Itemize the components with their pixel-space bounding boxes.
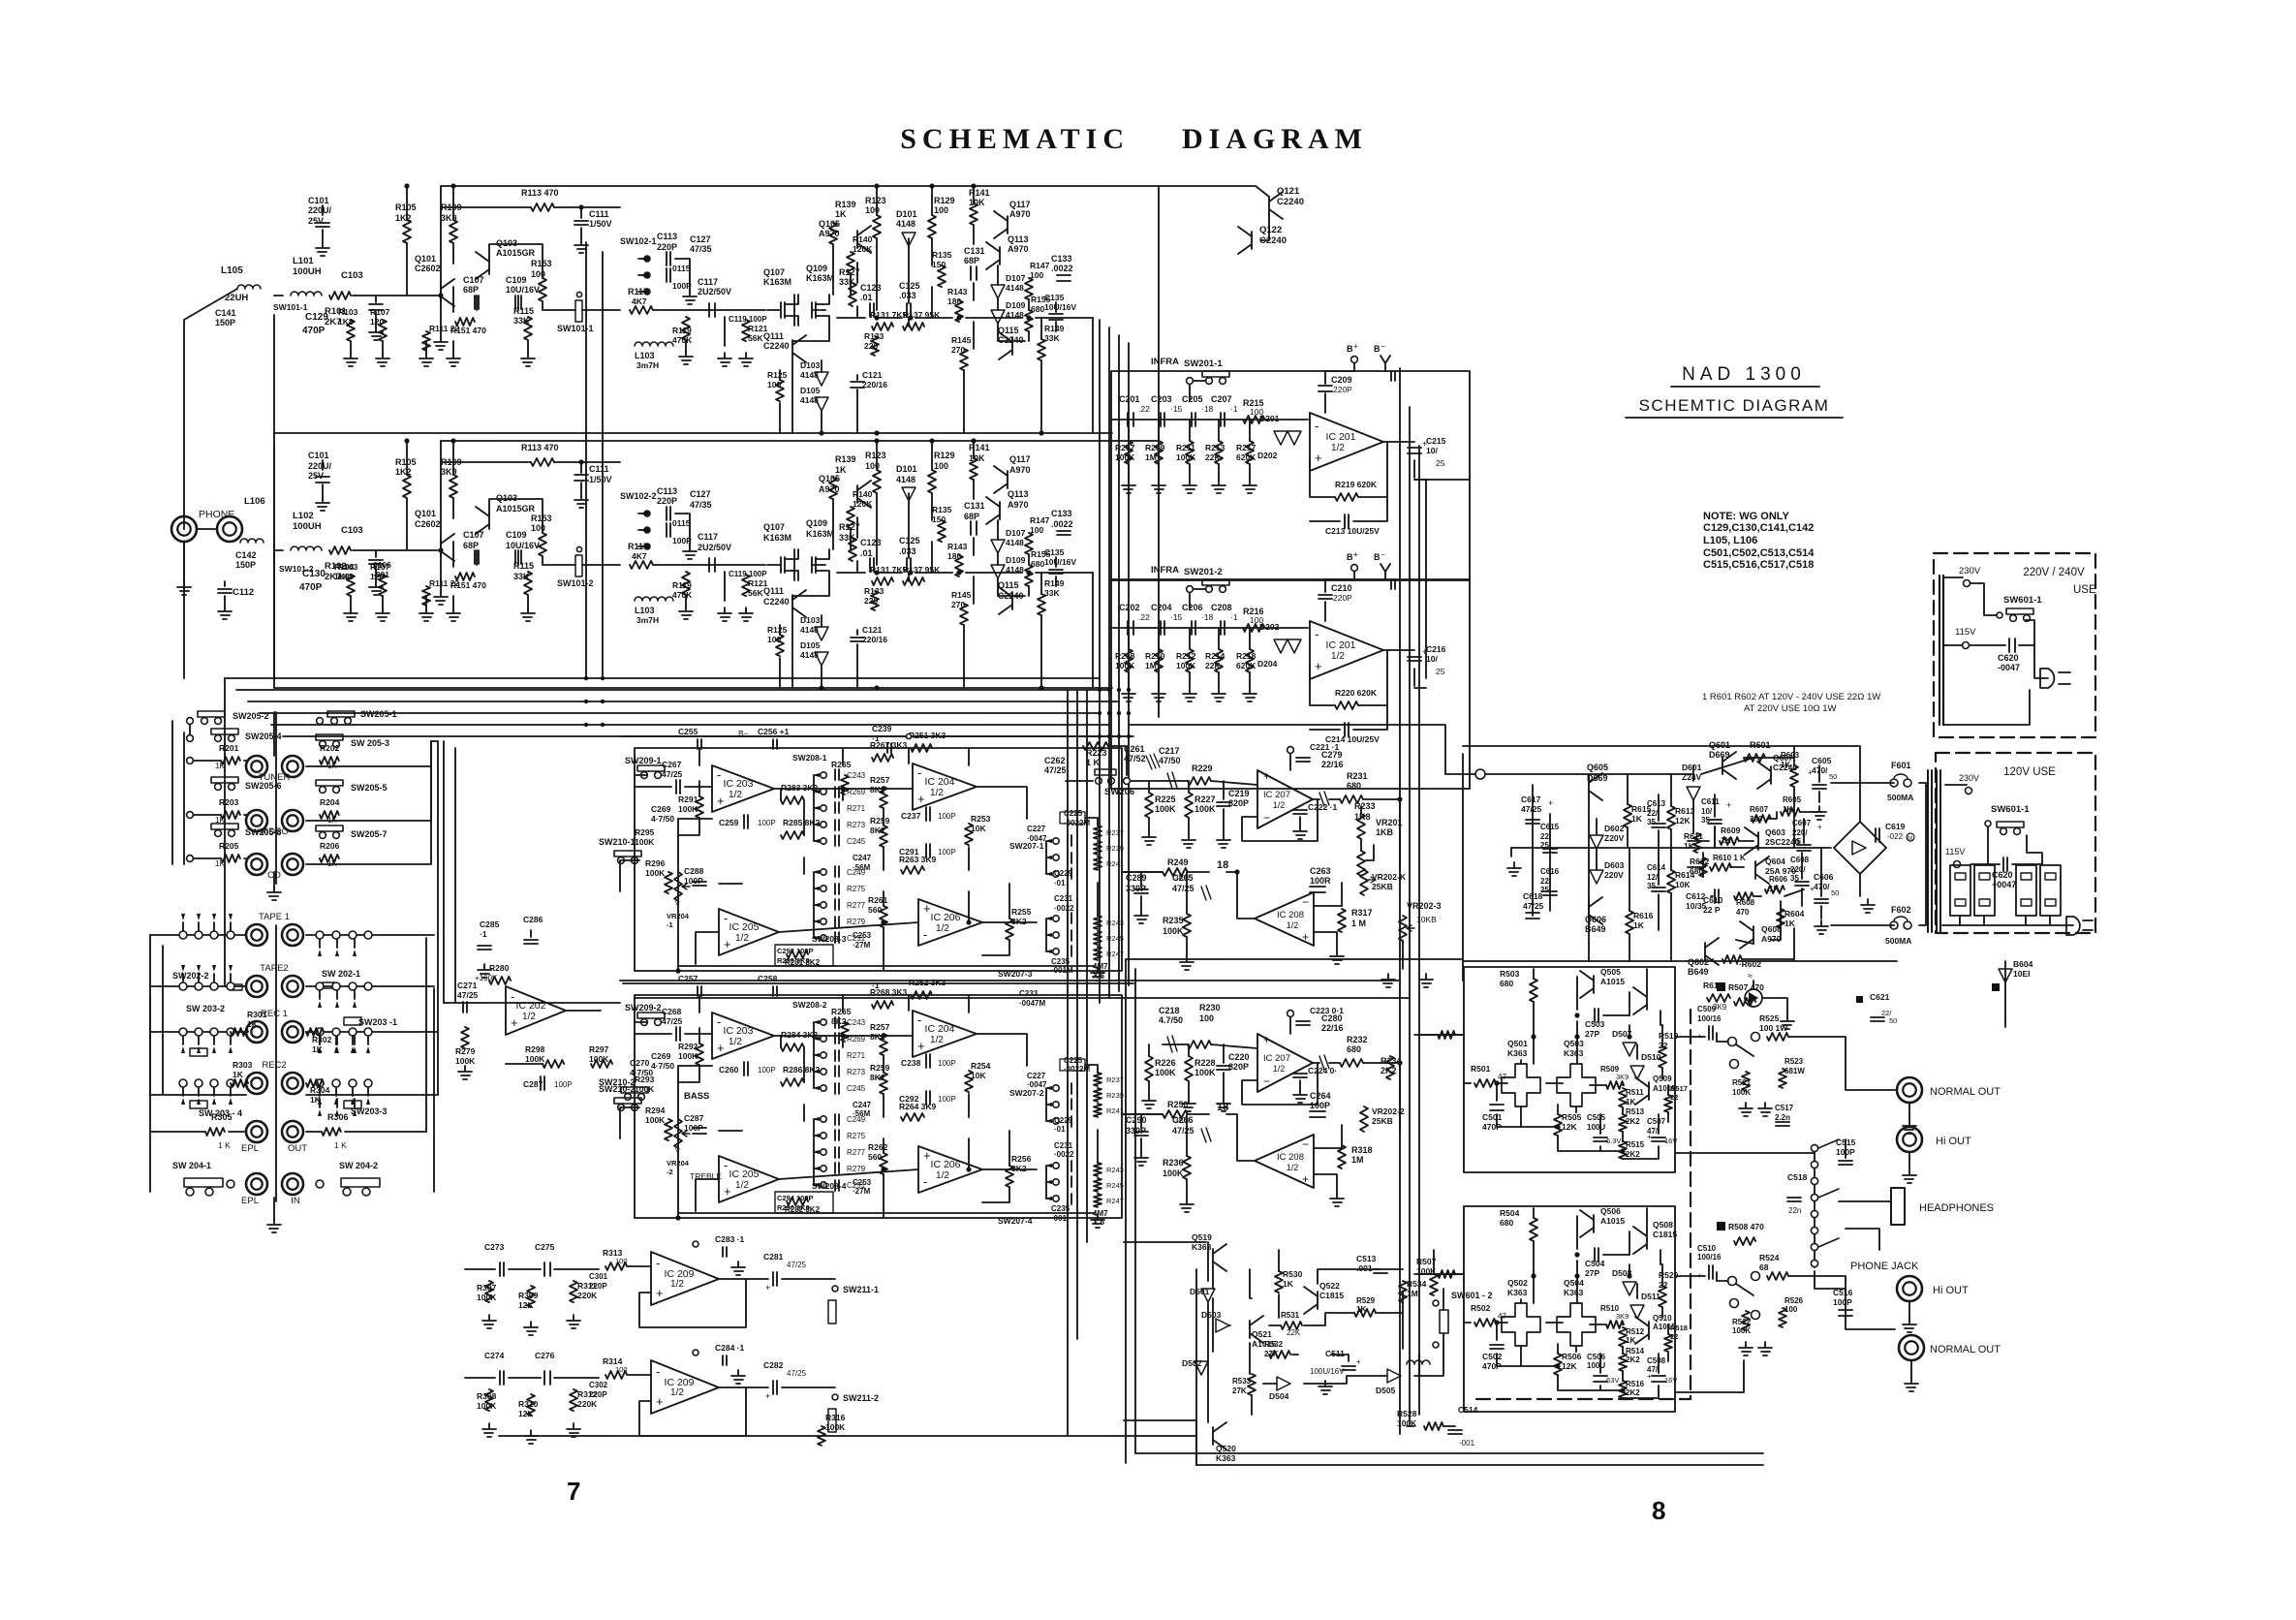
svg-text:68P: 68P [463,285,479,295]
svg-text:12K: 12K [1562,1361,1577,1371]
svg-text:R135: R135 [932,250,952,260]
svg-text:R529: R529 [1356,1296,1376,1305]
svg-text:C247: C247 [853,854,872,862]
svg-text:10K: 10K [971,1071,986,1080]
svg-text:270: 270 [951,345,965,355]
svg-text:+: + [1263,769,1270,783]
svg-text:R123: R123 [865,196,886,205]
svg-text:180: 180 [947,296,961,306]
svg-text:R279: R279 [847,918,866,926]
svg-text:+: + [923,901,931,916]
svg-text:R290 3K9: R290 3K9 [777,1203,810,1212]
svg-text:18: 18 [1217,859,1228,871]
svg-text:100U/16V: 100U/16V [1310,1367,1345,1376]
svg-text:C269: C269 [651,804,671,814]
svg-text:IC 206: IC 206 [931,1159,961,1170]
svg-text:−: − [1263,811,1270,825]
svg-text:R147: R147 [1030,515,1050,525]
svg-text:16V: 16V [1664,1376,1677,1385]
svg-text:K363: K363 [1216,1453,1236,1463]
svg-text:R318: R318 [1351,1145,1373,1155]
svg-text:25V: 25V [308,216,324,226]
svg-text:C502: C502 [1482,1352,1503,1361]
svg-text:100K: 100K [1155,804,1176,814]
svg-text:B: B [1347,344,1353,354]
svg-text:C294 100P: C294 100P [777,1194,814,1202]
svg-text:R305: R305 [211,1112,233,1122]
svg-text:IC 205: IC 205 [729,921,760,933]
svg-text:IC 207: IC 207 [1263,790,1290,800]
svg-text:≈: ≈ [1748,971,1753,981]
svg-text:D103: D103 [800,615,821,625]
svg-text:D103: D103 [800,360,821,370]
svg-text:SW 204-1: SW 204-1 [172,1161,211,1170]
svg-text:IN: IN [291,1196,300,1206]
svg-text:1/2: 1/2 [930,1035,944,1045]
svg-text:C619: C619 [1885,822,1906,831]
svg-text:C284 ·1: C284 ·1 [715,1343,745,1353]
svg-text:R523: R523 [1784,1057,1804,1066]
svg-text:50: 50 [1889,1016,1897,1025]
svg-text:R603: R603 [1781,751,1800,760]
svg-text:100K: 100K [1155,1068,1176,1077]
svg-text:470/: 470/ [1814,882,1830,891]
svg-text:C235: C235 [1051,957,1070,966]
svg-text:C504: C504 [1585,1259,1605,1268]
svg-text:B649: B649 [1688,967,1709,977]
svg-text:SW202-2: SW202-2 [172,971,209,981]
svg-text:22/: 22/ [1647,809,1659,818]
svg-text:L102: L102 [293,511,314,521]
svg-text:SW 205-3: SW 205-3 [351,738,389,748]
svg-text:C127: C127 [690,489,711,499]
svg-text:16V: 16V [1664,1137,1677,1145]
svg-text:100P: 100P [758,1066,776,1075]
svg-text:C510: C510 [1697,1244,1717,1253]
svg-text:4148: 4148 [800,625,819,635]
svg-text:10/: 10/ [1426,446,1438,455]
svg-text:2U2/50V: 2U2/50V [698,543,731,552]
svg-text:R220 620K: R220 620K [1335,688,1378,698]
svg-text:R309: R309 [518,1291,539,1300]
svg-text:C616: C616 [1540,867,1560,876]
svg-text:M: M [1908,836,1912,842]
svg-text:SW208-4: SW208-4 [812,1181,847,1191]
svg-text:C274: C274 [484,1351,505,1360]
svg-text:100: 100 [615,1257,628,1265]
svg-text:C135: C135 [1044,547,1065,557]
svg-text:4K7: 4K7 [632,551,647,561]
svg-text:680: 680 [1347,781,1361,791]
svg-text:150P: 150P [235,560,256,570]
svg-text:R534: R534 [1407,1279,1427,1289]
svg-text:680: 680 [1031,559,1044,569]
svg-text:Q111: Q111 [763,586,784,596]
svg-text:VR204: VR204 [667,912,690,920]
svg-text:C293 100P: C293 100P [777,947,814,955]
svg-text:47/25: 47/25 [662,769,683,779]
svg-text:220P: 220P [657,242,677,252]
svg-text:Q606: Q606 [1585,915,1606,924]
svg-text:1M: 1M [1145,452,1157,462]
svg-text:NAD 1300: NAD 1300 [1682,364,1806,385]
svg-text:220P: 220P [589,1282,607,1291]
svg-text:R236: R236 [1163,1158,1184,1168]
svg-text:R613: R613 [1675,806,1695,816]
svg-text:4·7/50: 4·7/50 [651,1061,674,1071]
svg-text:C514: C514 [1458,1405,1478,1415]
svg-text:C216: C216 [1426,644,1446,654]
svg-text:D601: D601 [1682,763,1702,772]
svg-text:R609: R609 [1721,826,1741,835]
svg-text:1/2: 1/2 [930,788,944,798]
svg-text:.033: .033 [899,291,916,300]
svg-text:+: + [511,1015,518,1030]
svg-text:-001: -001 [1459,1439,1475,1448]
svg-text:390: 390 [1750,815,1763,824]
svg-text:R213: R213 [1205,443,1226,452]
svg-text:IC 201: IC 201 [1326,639,1356,651]
svg-text:10K: 10K [1675,880,1691,889]
svg-text:18: 18 [1217,1102,1228,1113]
svg-text:C101: C101 [308,196,329,205]
svg-text:·1: ·1 [1230,612,1238,622]
svg-text:R524: R524 [1759,1253,1780,1262]
svg-text:4148: 4148 [896,219,915,229]
svg-text:+: + [765,1391,770,1401]
svg-text:SW207-2: SW207-2 [1009,1088,1044,1098]
svg-text:IC 204: IC 204 [925,1023,955,1035]
svg-text:R141: R141 [969,443,990,452]
svg-text:SW102-1: SW102-1 [620,236,657,246]
svg-text:R601: R601 [1750,740,1771,750]
svg-text:R531: R531 [1281,1311,1300,1320]
svg-text:220U/: 220U/ [308,205,332,215]
svg-text:A970: A970 [819,229,840,238]
svg-text:SCHEMTIC DIAGRAM: SCHEMTIC DIAGRAM [1639,396,1830,415]
svg-text:1/2: 1/2 [670,1387,684,1398]
svg-text:L105: L105 [221,265,243,276]
svg-text:R616: R616 [1633,911,1654,920]
svg-text:SW102-2: SW102-2 [620,491,657,501]
svg-text:C282: C282 [763,1360,784,1370]
svg-text:220/: 220/ [1792,828,1808,837]
svg-text:EPL: EPL [241,1143,259,1154]
svg-text:3K9: 3K9 [1616,1312,1629,1321]
svg-text:1KB: 1KB [1376,827,1394,837]
svg-text:820P: 820P [1228,1062,1249,1072]
svg-text:C133: C133 [1051,254,1072,264]
svg-text:−: − [1381,342,1385,351]
svg-text:1K8: 1K8 [334,572,350,581]
svg-text:100: 100 [1030,525,1043,535]
svg-text:L101: L101 [293,256,314,266]
svg-text:R516: R516 [1626,1380,1645,1388]
svg-text:D105: D105 [800,386,821,395]
svg-text:33K: 33K [1044,333,1060,343]
svg-text:R234: R234 [1381,1056,1402,1066]
svg-text:C141: C141 [215,308,236,318]
svg-text:R280: R280 [489,963,510,973]
svg-text:C257: C257 [678,974,698,983]
svg-text:C117: C117 [698,277,718,287]
svg-text:·01: ·01 [1054,1125,1066,1134]
svg-text:1/2: 1/2 [670,1279,684,1290]
svg-text:IC 203: IC 203 [724,778,754,790]
svg-text:220K: 220K [577,1291,598,1300]
svg-text:HEADPHONES: HEADPHONES [1919,1202,1994,1214]
svg-text:-1: -1 [667,920,673,929]
svg-text:1K: 1K [1356,1305,1366,1314]
svg-text:3m7H: 3m7H [636,615,659,625]
svg-text:C2602: C2602 [415,264,441,273]
svg-text:R521: R521 [1732,1078,1752,1087]
svg-text:R511: R511 [1626,1088,1644,1097]
svg-text:PHONE: PHONE [199,509,234,520]
svg-text:10K: 10K [971,824,986,833]
svg-text:IC 203: IC 203 [724,1025,754,1037]
svg-text:Q105: Q105 [819,219,840,229]
svg-text:L103: L103 [635,351,655,360]
svg-text:R289 3K9: R289 3K9 [777,956,810,965]
svg-text:R129: R129 [934,451,955,460]
svg-text:SW209-1: SW209-1 [625,756,662,765]
svg-text:C256 +1: C256 +1 [758,727,790,736]
svg-text:C239: C239 [872,724,892,733]
svg-text:C205: C205 [1182,394,1203,404]
svg-text:R245: R245 [1106,934,1124,943]
svg-text:100 1W: 100 1W [1759,1023,1788,1033]
svg-text:R515: R515 [1626,1140,1645,1149]
svg-text:100K: 100K [678,1051,698,1061]
svg-text:SW208-2: SW208-2 [792,1000,827,1010]
svg-text:2K2: 2K2 [1626,1355,1640,1364]
svg-text:C260: C260 [719,1065,739,1075]
svg-text:·0022M: ·0022M [1064,1065,1090,1074]
svg-text:1/2: 1/2 [729,790,742,800]
svg-text:100K: 100K [1163,1168,1184,1178]
svg-text:C273: C273 [484,1242,505,1252]
svg-text:1K: 1K [215,762,225,770]
svg-text:C259: C259 [719,818,739,827]
svg-text:R233: R233 [1354,801,1376,811]
svg-text:R103: R103 [338,307,358,317]
svg-text:33K: 33K [513,572,530,581]
svg-text:100P: 100P [554,1080,573,1089]
svg-text:C286: C286 [523,915,543,924]
svg-text:1K: 1K [1626,1098,1635,1106]
svg-text:R275: R275 [847,1132,866,1140]
svg-text:C503: C503 [1585,1019,1605,1029]
svg-text:1 R601 R602 AT 120V - 240V: 1 R601 R602 AT 120V - 240V USE 22Ω 1W [1702,692,1880,702]
svg-text:−: − [1263,1075,1270,1088]
svg-text:C518: C518 [1787,1172,1808,1182]
svg-text:D107: D107 [1006,528,1026,538]
svg-text:C111: C111 [589,464,609,474]
svg-text:100K: 100K [1176,661,1196,670]
svg-text:22n: 22n [1788,1206,1801,1215]
svg-text:1K: 1K [312,1044,324,1054]
svg-text:C262: C262 [1044,756,1066,765]
svg-text:R530: R530 [1283,1269,1303,1279]
svg-text:C131: C131 [964,501,985,511]
svg-text:PHONE JACK: PHONE JACK [1850,1261,1919,1272]
svg-text:R271: R271 [847,1051,866,1060]
svg-text:R243: R243 [1106,1166,1124,1174]
svg-text:3m7H: 3m7H [636,360,659,370]
svg-text:-: - [724,1158,728,1172]
svg-text:Q505: Q505 [1600,967,1621,977]
svg-text:TAPE 1: TAPE 1 [259,912,290,922]
svg-text:100K: 100K [1195,1068,1216,1077]
svg-text:R271: R271 [847,804,866,813]
svg-text:R214: R214 [1205,651,1226,661]
svg-text:100K: 100K [1176,452,1196,462]
svg-text:Q109: Q109 [806,518,827,528]
svg-text:25: 25 [1436,458,1445,468]
svg-text:C219: C219 [1228,789,1250,798]
svg-text:22 P: 22 P [1703,905,1721,915]
svg-text:SW207-4: SW207-4 [998,1216,1033,1226]
svg-text:220: 220 [864,341,878,351]
svg-text:R301: R301 [247,1010,267,1019]
svg-text:C245: C245 [847,1084,866,1093]
svg-text:VR202-3: VR202-3 [1407,901,1442,911]
svg-text:R502: R502 [1471,1303,1491,1313]
svg-text:·27M: ·27M [853,941,871,950]
svg-text:C107: C107 [463,275,484,285]
svg-text:R308: R308 [477,1391,497,1401]
svg-text:R209: R209 [1145,443,1165,452]
svg-text:.22: .22 [1138,612,1150,622]
svg-text:C275: C275 [535,1242,555,1252]
svg-text:230V: 230V [1959,773,1979,783]
svg-text:100: 100 [1030,270,1043,280]
svg-text:12K: 12K [518,1300,534,1310]
svg-text:-: - [717,1014,721,1029]
svg-text:C610: C610 [1703,895,1723,905]
svg-text:R608: R608 [1736,898,1755,907]
svg-text:R275: R275 [847,885,866,893]
svg-text:100K: 100K [477,1401,497,1411]
svg-text:C255: C255 [678,727,698,736]
svg-text:470K: 470K [672,335,693,345]
svg-text:R140: R140 [853,234,873,244]
svg-text:R212: R212 [1176,651,1196,661]
svg-text:R115: R115 [513,306,534,316]
svg-text:R211: R211 [1176,443,1195,452]
svg-text:330P: 330P [1126,1126,1146,1136]
svg-text:NORMAL OUT: NORMAL OUT [1930,1086,2001,1098]
svg-text:C302: C302 [589,1381,608,1389]
svg-text:R303: R303 [233,1060,253,1070]
svg-text:100: 100 [934,205,948,215]
svg-text:C231: C231 [1054,894,1073,903]
svg-text:SW208-1: SW208-1 [792,753,827,763]
svg-text:100/16: 100/16 [1697,1014,1722,1023]
svg-text:220/: 220/ [1790,865,1806,874]
svg-text:C217: C217 [1159,746,1180,756]
svg-text:D669: D669 [1709,750,1730,760]
svg-text:AT 220V USE 10Ω 1W: AT 220V USE 10Ω 1W [1744,703,1836,714]
svg-text:560: 560 [868,1152,882,1162]
svg-text:R611: R611 [1684,831,1703,841]
svg-text:1M: 1M [1407,1289,1418,1298]
svg-text:C507: C507 [1647,1117,1666,1126]
svg-text:F601: F601 [1891,761,1911,770]
svg-text:C142: C142 [235,550,257,560]
svg-text:1K: 1K [1626,1336,1635,1345]
svg-text:47/25: 47/25 [787,1369,807,1378]
svg-text:+: + [765,1283,770,1293]
svg-text:C614: C614 [1647,863,1666,872]
svg-text:+: + [1353,550,1358,559]
svg-text:TAPE2: TAPE2 [260,963,288,974]
svg-text:C290: C290 [1126,1115,1147,1125]
svg-text:+: + [1726,800,1731,810]
svg-text:C285: C285 [480,919,500,929]
svg-text:C113: C113 [657,232,677,241]
svg-text:220V / 240V: 220V / 240V [2023,567,2085,578]
svg-text:B: B [1374,344,1381,354]
svg-text:22/16: 22/16 [1321,1023,1344,1033]
svg-text:1K8: 1K8 [1354,812,1371,822]
svg-text:100K: 100K [635,837,655,847]
svg-text:R257: R257 [870,775,890,785]
svg-text:R228: R228 [1195,1058,1216,1068]
svg-text:C287: C287 [684,1113,704,1123]
svg-text:-001: -001 [373,570,389,579]
svg-text:SW210-2: SW210-2 [599,1077,636,1087]
svg-text:C113: C113 [657,486,677,496]
svg-text:C509: C509 [1697,1005,1717,1013]
svg-text:620K: 620K [1236,661,1257,670]
svg-text:SCHEMATIC: SCHEMATIC [900,123,1130,155]
svg-text:R151 470: R151 470 [450,580,486,590]
svg-text:R204: R204 [320,797,340,807]
svg-text:680: 680 [1500,1218,1513,1228]
svg-text:R298: R298 [525,1044,545,1054]
svg-text:100K: 100K [645,868,666,878]
svg-text:C206: C206 [1182,603,1203,612]
svg-text:VR204: VR204 [667,1159,690,1168]
svg-text:100K: 100K [477,1293,497,1302]
svg-text:10U/16V: 10U/16V [1044,557,1076,567]
svg-text:VR201: VR201 [1376,818,1403,827]
svg-text:C207: C207 [1211,394,1232,404]
svg-text:-: - [717,767,721,782]
svg-text:2.2n: 2.2n [1775,1113,1790,1122]
svg-text:C605: C605 [1812,756,1832,765]
svg-text:R251 3K3: R251 3K3 [909,731,946,740]
svg-text:4148: 4148 [1006,283,1024,293]
svg-text:C224 0·: C224 0· [1308,1066,1337,1075]
svg-text:1K: 1K [327,859,337,868]
svg-text:Q604: Q604 [1765,857,1785,866]
svg-text:Q603: Q603 [1765,827,1785,837]
svg-text:V: V [675,901,680,908]
svg-text:R518: R518 [1670,1324,1688,1332]
svg-text:C215: C215 [1426,436,1446,446]
svg-text:SW203 -1: SW203 -1 [358,1017,397,1027]
svg-text:63V: 63V [1606,1376,1619,1385]
svg-text:100K: 100K [589,1054,609,1064]
svg-text:115V: 115V [1945,847,1965,857]
svg-text:R149: R149 [1044,324,1065,333]
svg-text:+: + [1315,659,1322,673]
svg-text:Q111: Q111 [763,331,784,341]
svg-text:R604: R604 [1784,909,1805,919]
